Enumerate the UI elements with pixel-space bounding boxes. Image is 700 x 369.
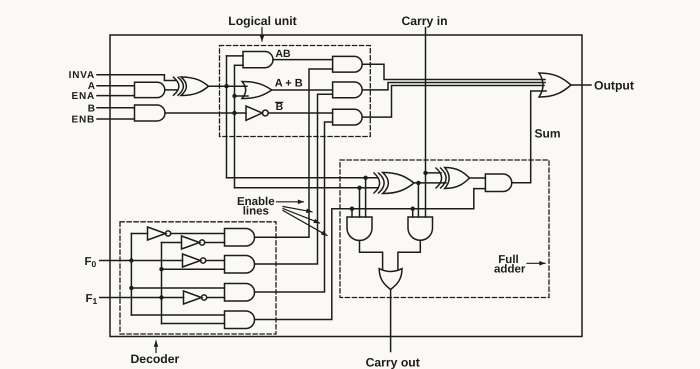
svg-text:Logical unit: Logical unit bbox=[228, 14, 296, 28]
svg-text:F1: F1 bbox=[86, 293, 98, 306]
and-gate decoder3 bbox=[225, 284, 255, 302]
wire vertical B branch bbox=[234, 65, 236, 188]
wire LU and2 out to output OR bbox=[362, 83, 545, 90]
svg-text:Carry in: Carry in bbox=[401, 14, 447, 28]
wire AND to XOR bbox=[165, 89, 177, 91]
wire F0 input bbox=[100, 260, 183, 262]
wire enable to right carry AND bbox=[412, 209, 414, 217]
wire enable line 2 bbox=[255, 94, 333, 264]
svg-text:Carry out: Carry out bbox=[366, 356, 420, 369]
wire ENA input bbox=[97, 95, 134, 97]
and-gate decoder2 bbox=[225, 256, 255, 274]
arrow full adder bbox=[527, 262, 545, 264]
svg-text:AB: AB bbox=[275, 48, 291, 60]
wire inv4 out bbox=[207, 297, 225, 299]
arrow enable 1 bbox=[277, 201, 304, 203]
wire F1 input bbox=[100, 297, 184, 299]
and-gate AB bbox=[243, 52, 273, 68]
xor-gate FA2 bbox=[436, 168, 470, 189]
wire A+B out bbox=[272, 89, 333, 91]
node dot enable right-AND bbox=[411, 207, 415, 211]
wire F1 to AND4 bottom bbox=[162, 323, 225, 325]
wire carry-left AND out bbox=[360, 241, 383, 269]
wire vertical A branch bbox=[226, 56, 228, 178]
svg-text:Sum: Sum bbox=[535, 126, 561, 140]
wire B row into full adder bbox=[235, 187, 379, 189]
svg-text:Decoder: Decoder bbox=[131, 352, 180, 366]
wire A line (xor out to OR gate) bbox=[209, 85, 248, 87]
and-gate decoder1 bbox=[225, 229, 255, 247]
or-gate A+B bbox=[242, 82, 272, 99]
wire carry-in bbox=[425, 28, 427, 217]
svg-text:A + B: A + B bbox=[275, 78, 303, 90]
wire B input bbox=[97, 107, 134, 109]
wire F1 vertical line bbox=[161, 243, 163, 324]
wire INVA input bbox=[97, 75, 176, 81]
wire AB out bbox=[273, 59, 333, 61]
wire FA xor2 out bbox=[470, 177, 486, 179]
node dot F0 bbox=[129, 258, 133, 262]
wire LU and1 out to output OR bbox=[362, 64, 545, 79]
wire F1 to inv2 bbox=[162, 242, 182, 244]
arrow decoder bbox=[155, 341, 157, 353]
svg-text:Output: Output bbox=[594, 78, 634, 92]
not-gate Bbar bbox=[246, 106, 262, 120]
logical unit dashed box bbox=[220, 46, 371, 137]
and-gate carry-left (vertical) bbox=[347, 217, 372, 241]
and-gate enable-Bbar bbox=[333, 109, 363, 125]
svg-text:F0: F0 bbox=[85, 256, 97, 269]
svg-text:B: B bbox=[88, 103, 95, 114]
and-gate carry-right (vertical) bbox=[408, 217, 433, 240]
wire FA xor1 out bbox=[414, 182, 446, 184]
arrow enable 4 bbox=[283, 211, 327, 236]
wire inv3 out bbox=[206, 260, 225, 262]
node dot B branch / OR bottom bbox=[232, 94, 236, 98]
arrow enable 2 bbox=[283, 207, 312, 212]
xor-gate input (A xor INVA) bbox=[174, 77, 209, 96]
overline of Bbar bbox=[275, 101, 283, 103]
wire ENB input bbox=[97, 118, 134, 120]
node dot F1/AND2 bbox=[159, 267, 163, 271]
wire sum to output OR bbox=[512, 91, 546, 183]
wire enable line 3 bbox=[255, 122, 333, 292]
wire F0 branch to AND3 top bbox=[131, 287, 224, 289]
not-gate inv2 bbox=[182, 236, 200, 249]
wire carry-in branch to XOR2 bbox=[426, 172, 442, 174]
svg-text:ENB: ENB bbox=[71, 114, 95, 125]
not-gate inv3 bbox=[183, 254, 201, 267]
wire F1 branch to AND2 bottom bbox=[162, 268, 225, 270]
svg-text:ENA: ENA bbox=[71, 91, 95, 102]
node dot F0/AND3 bbox=[129, 286, 133, 290]
wire B to left carry AND bbox=[359, 188, 361, 217]
wire F0 vertical line bbox=[130, 234, 132, 316]
wire xor1-out to right carry AND bbox=[417, 183, 419, 217]
arrow enable 3 bbox=[283, 209, 320, 224]
wire A to left carry AND bbox=[365, 178, 367, 217]
outer enclosure box bbox=[110, 35, 582, 337]
node dot B / left-AND bbox=[357, 186, 361, 190]
wire enable line 1 bbox=[255, 69, 333, 237]
wire F0 to inv1 bbox=[131, 233, 147, 235]
svg-text:adder: adder bbox=[494, 264, 526, 276]
xor-gate FA1 bbox=[374, 173, 414, 194]
wire F0 to AND4 top bbox=[131, 314, 224, 316]
wire inv2 out bbox=[205, 242, 225, 244]
and-gate decoder4 bbox=[225, 311, 255, 329]
svg-text:INVA: INVA bbox=[69, 70, 95, 81]
not-gate inv4 bbox=[184, 291, 202, 304]
wire A branch to AB gate top bbox=[227, 55, 244, 57]
wire carry-right AND out bbox=[398, 240, 420, 268]
wire Bbar out bbox=[268, 112, 332, 114]
and-gate enable-AB bbox=[333, 56, 363, 72]
node dot xor1out / right-AND bbox=[416, 181, 420, 185]
not-gate inv1 bbox=[148, 227, 166, 240]
and-gate enable-A+B bbox=[333, 82, 363, 98]
wire A input bbox=[97, 85, 134, 87]
wire B branch to AB gate bottom bbox=[235, 64, 244, 66]
node dot F1 bbox=[159, 295, 163, 299]
node dot B row bbox=[232, 111, 236, 115]
wire B branch to OR gate bottom bbox=[235, 95, 249, 97]
and-gate B.ENB bbox=[135, 105, 166, 121]
full adder dashed box bbox=[340, 160, 549, 298]
and-gate A.ENA bbox=[135, 82, 165, 97]
or-gate output bbox=[539, 73, 571, 97]
or-gate carry-out (vertical) bbox=[379, 269, 402, 290]
decoder dashed box bbox=[120, 222, 276, 334]
wire enable to left carry AND bbox=[351, 209, 353, 217]
svg-text:lines: lines bbox=[243, 206, 269, 218]
wire LU and3 out to output OR bbox=[362, 86, 544, 118]
wire output bbox=[571, 84, 591, 86]
wire carry out bbox=[390, 290, 392, 352]
node dot A / left-AND bbox=[363, 176, 367, 180]
node dot carry-in / XOR2 bbox=[423, 171, 427, 175]
wire inv1 out bbox=[171, 233, 225, 235]
wire A row into full adder bbox=[227, 177, 379, 179]
node dot xor-out / A branch bbox=[224, 84, 228, 88]
node dot enable left-AND bbox=[350, 207, 354, 211]
arrow logical unit bbox=[261, 28, 263, 42]
wire enable4 adder bbox=[255, 189, 486, 320]
wire B line (and out to NOT gate) bbox=[165, 112, 246, 114]
and-gate sum bbox=[485, 174, 511, 192]
